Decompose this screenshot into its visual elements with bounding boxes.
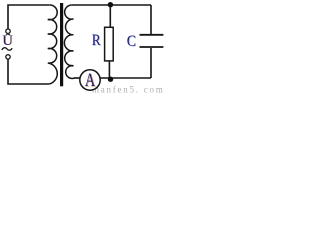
resistor R box [105,27,114,61]
AC tilde symbol [2,48,12,51]
wire bottom-left (source to primary coil) [8,59,49,84]
wire right side bottom [150,48,152,78]
node junction bottom (dot) [108,77,113,82]
transformer secondary coil [64,5,74,78]
wire secondary bottom right [100,77,151,79]
wire resistor bottom [108,61,110,78]
svg-text:R: R [92,30,101,49]
svg-text:A: A [85,70,96,91]
wire top-left (source to primary coil) [8,5,49,29]
wire to resistor top [109,5,111,27]
node: source top terminal [6,29,10,33]
node junction top (dot) [108,2,113,7]
transformer primary coil [48,5,57,84]
wire right side top (to capacitor) [150,5,152,34]
wire coil to ammeter [74,77,81,79]
tilde accent over U [6,33,10,36]
capacitor C top plate [140,34,164,36]
svg-text:C: C [127,31,136,50]
wire secondary top [72,4,151,6]
svg-text:manfen5. com: manfen5. com [92,84,163,94]
svg-text:U: U [2,33,13,49]
node: source bottom terminal [6,55,10,59]
ammeter A circle [80,70,100,90]
transformer core [60,3,63,86]
capacitor C bottom plate [140,46,164,48]
